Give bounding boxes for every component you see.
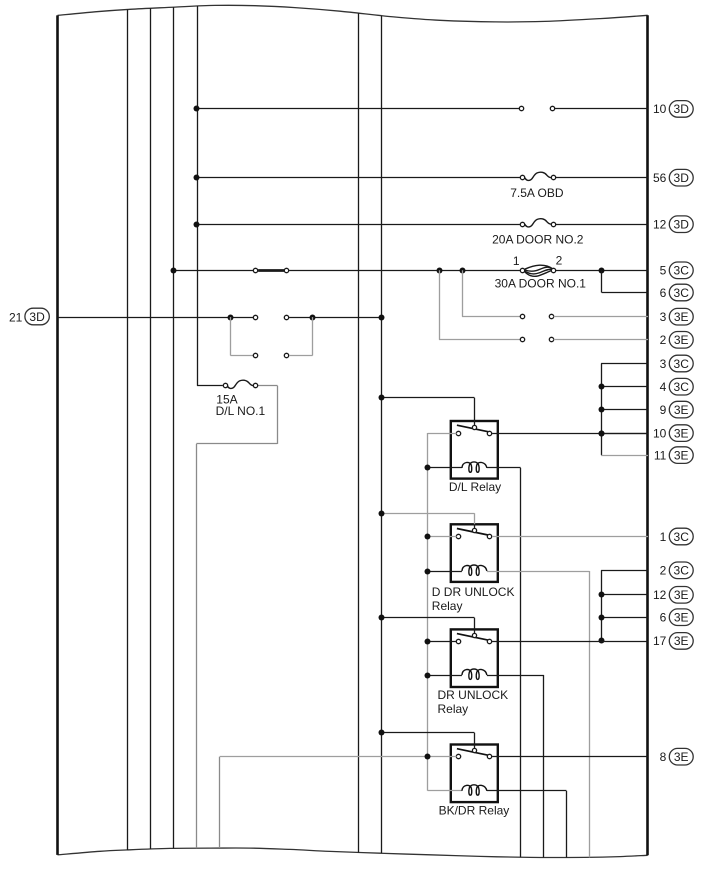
svg-text:3E: 3E	[674, 333, 689, 347]
svg-text:DR UNLOCK: DR UNLOCK	[438, 688, 509, 702]
svg-text:5: 5	[660, 264, 667, 278]
svg-text:BK/DR Relay: BK/DR Relay	[439, 804, 510, 818]
svg-text:6: 6	[660, 611, 667, 625]
svg-text:12: 12	[653, 588, 667, 602]
svg-text:D/L Relay: D/L Relay	[449, 480, 501, 494]
svg-text:30A DOOR NO.1: 30A DOOR NO.1	[495, 276, 587, 290]
svg-text:Relay: Relay	[432, 599, 463, 613]
svg-text:17: 17	[653, 634, 667, 648]
svg-text:Relay: Relay	[438, 702, 469, 716]
svg-text:1: 1	[660, 530, 667, 544]
svg-text:1: 1	[513, 254, 520, 268]
svg-text:3: 3	[660, 310, 667, 324]
svg-text:3C: 3C	[674, 264, 690, 278]
svg-text:56: 56	[653, 171, 667, 185]
svg-text:6: 6	[660, 286, 667, 300]
svg-text:3C: 3C	[674, 380, 690, 394]
svg-text:3E: 3E	[674, 448, 689, 462]
svg-text:2: 2	[556, 253, 563, 267]
svg-text:2: 2	[660, 564, 667, 578]
svg-text:7.5A OBD: 7.5A OBD	[510, 186, 564, 200]
svg-text:3C: 3C	[674, 564, 690, 578]
svg-text:3E: 3E	[674, 611, 689, 625]
svg-text:3E: 3E	[674, 426, 689, 440]
svg-text:D DR UNLOCK: D DR UNLOCK	[432, 585, 515, 599]
svg-text:3D: 3D	[674, 218, 690, 232]
svg-text:3C: 3C	[674, 286, 690, 300]
svg-text:3D: 3D	[674, 171, 690, 185]
svg-text:20A DOOR NO.2: 20A DOOR NO.2	[492, 233, 584, 247]
svg-text:3C: 3C	[674, 357, 690, 371]
svg-text:3E: 3E	[674, 750, 689, 764]
svg-text:D/L NO.1: D/L NO.1	[216, 404, 266, 418]
svg-text:3E: 3E	[674, 403, 689, 417]
svg-text:12: 12	[653, 218, 667, 232]
svg-text:10: 10	[653, 426, 667, 440]
svg-text:21: 21	[9, 310, 23, 324]
svg-text:11: 11	[654, 448, 667, 462]
svg-text:3D: 3D	[674, 102, 690, 116]
svg-text:10: 10	[653, 102, 667, 116]
svg-text:3: 3	[660, 357, 667, 371]
svg-text:9: 9	[660, 403, 667, 417]
svg-text:3E: 3E	[674, 310, 689, 324]
svg-text:3E: 3E	[674, 634, 689, 648]
svg-text:2: 2	[660, 333, 667, 347]
svg-text:3D: 3D	[29, 310, 45, 324]
svg-text:3E: 3E	[674, 588, 689, 602]
svg-text:3C: 3C	[674, 530, 690, 544]
svg-text:8: 8	[660, 750, 667, 764]
svg-text:4: 4	[660, 380, 667, 394]
